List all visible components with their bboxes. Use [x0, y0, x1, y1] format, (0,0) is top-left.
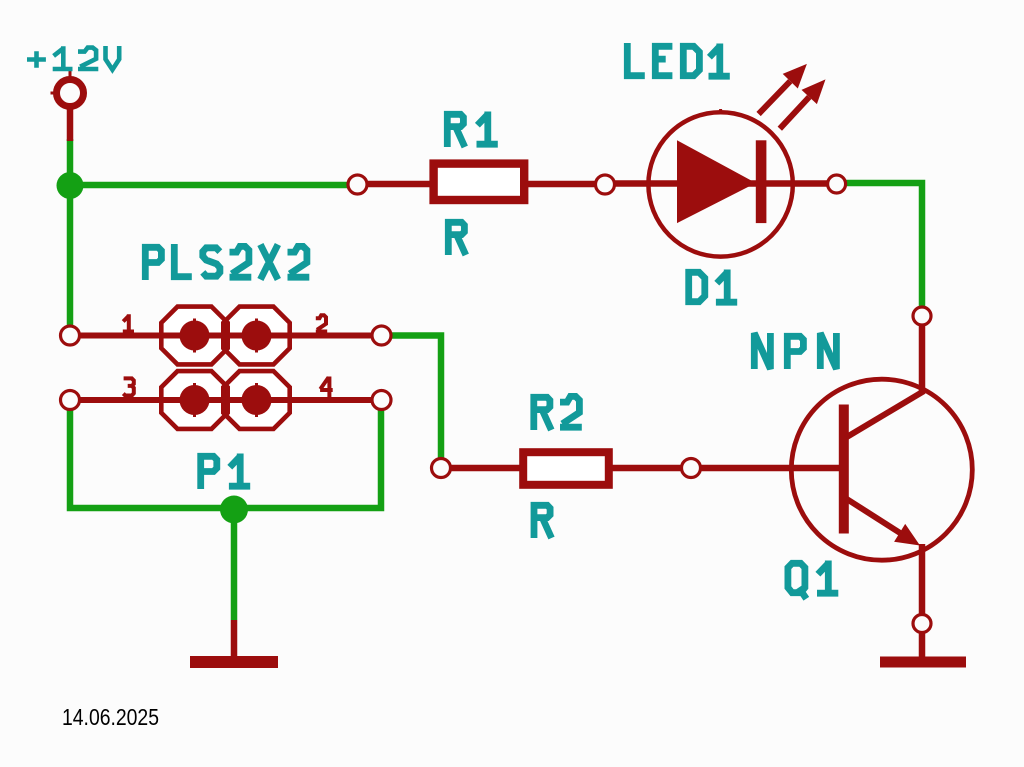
svg-text:14.06.2025: 14.06.2025 [62, 704, 159, 730]
